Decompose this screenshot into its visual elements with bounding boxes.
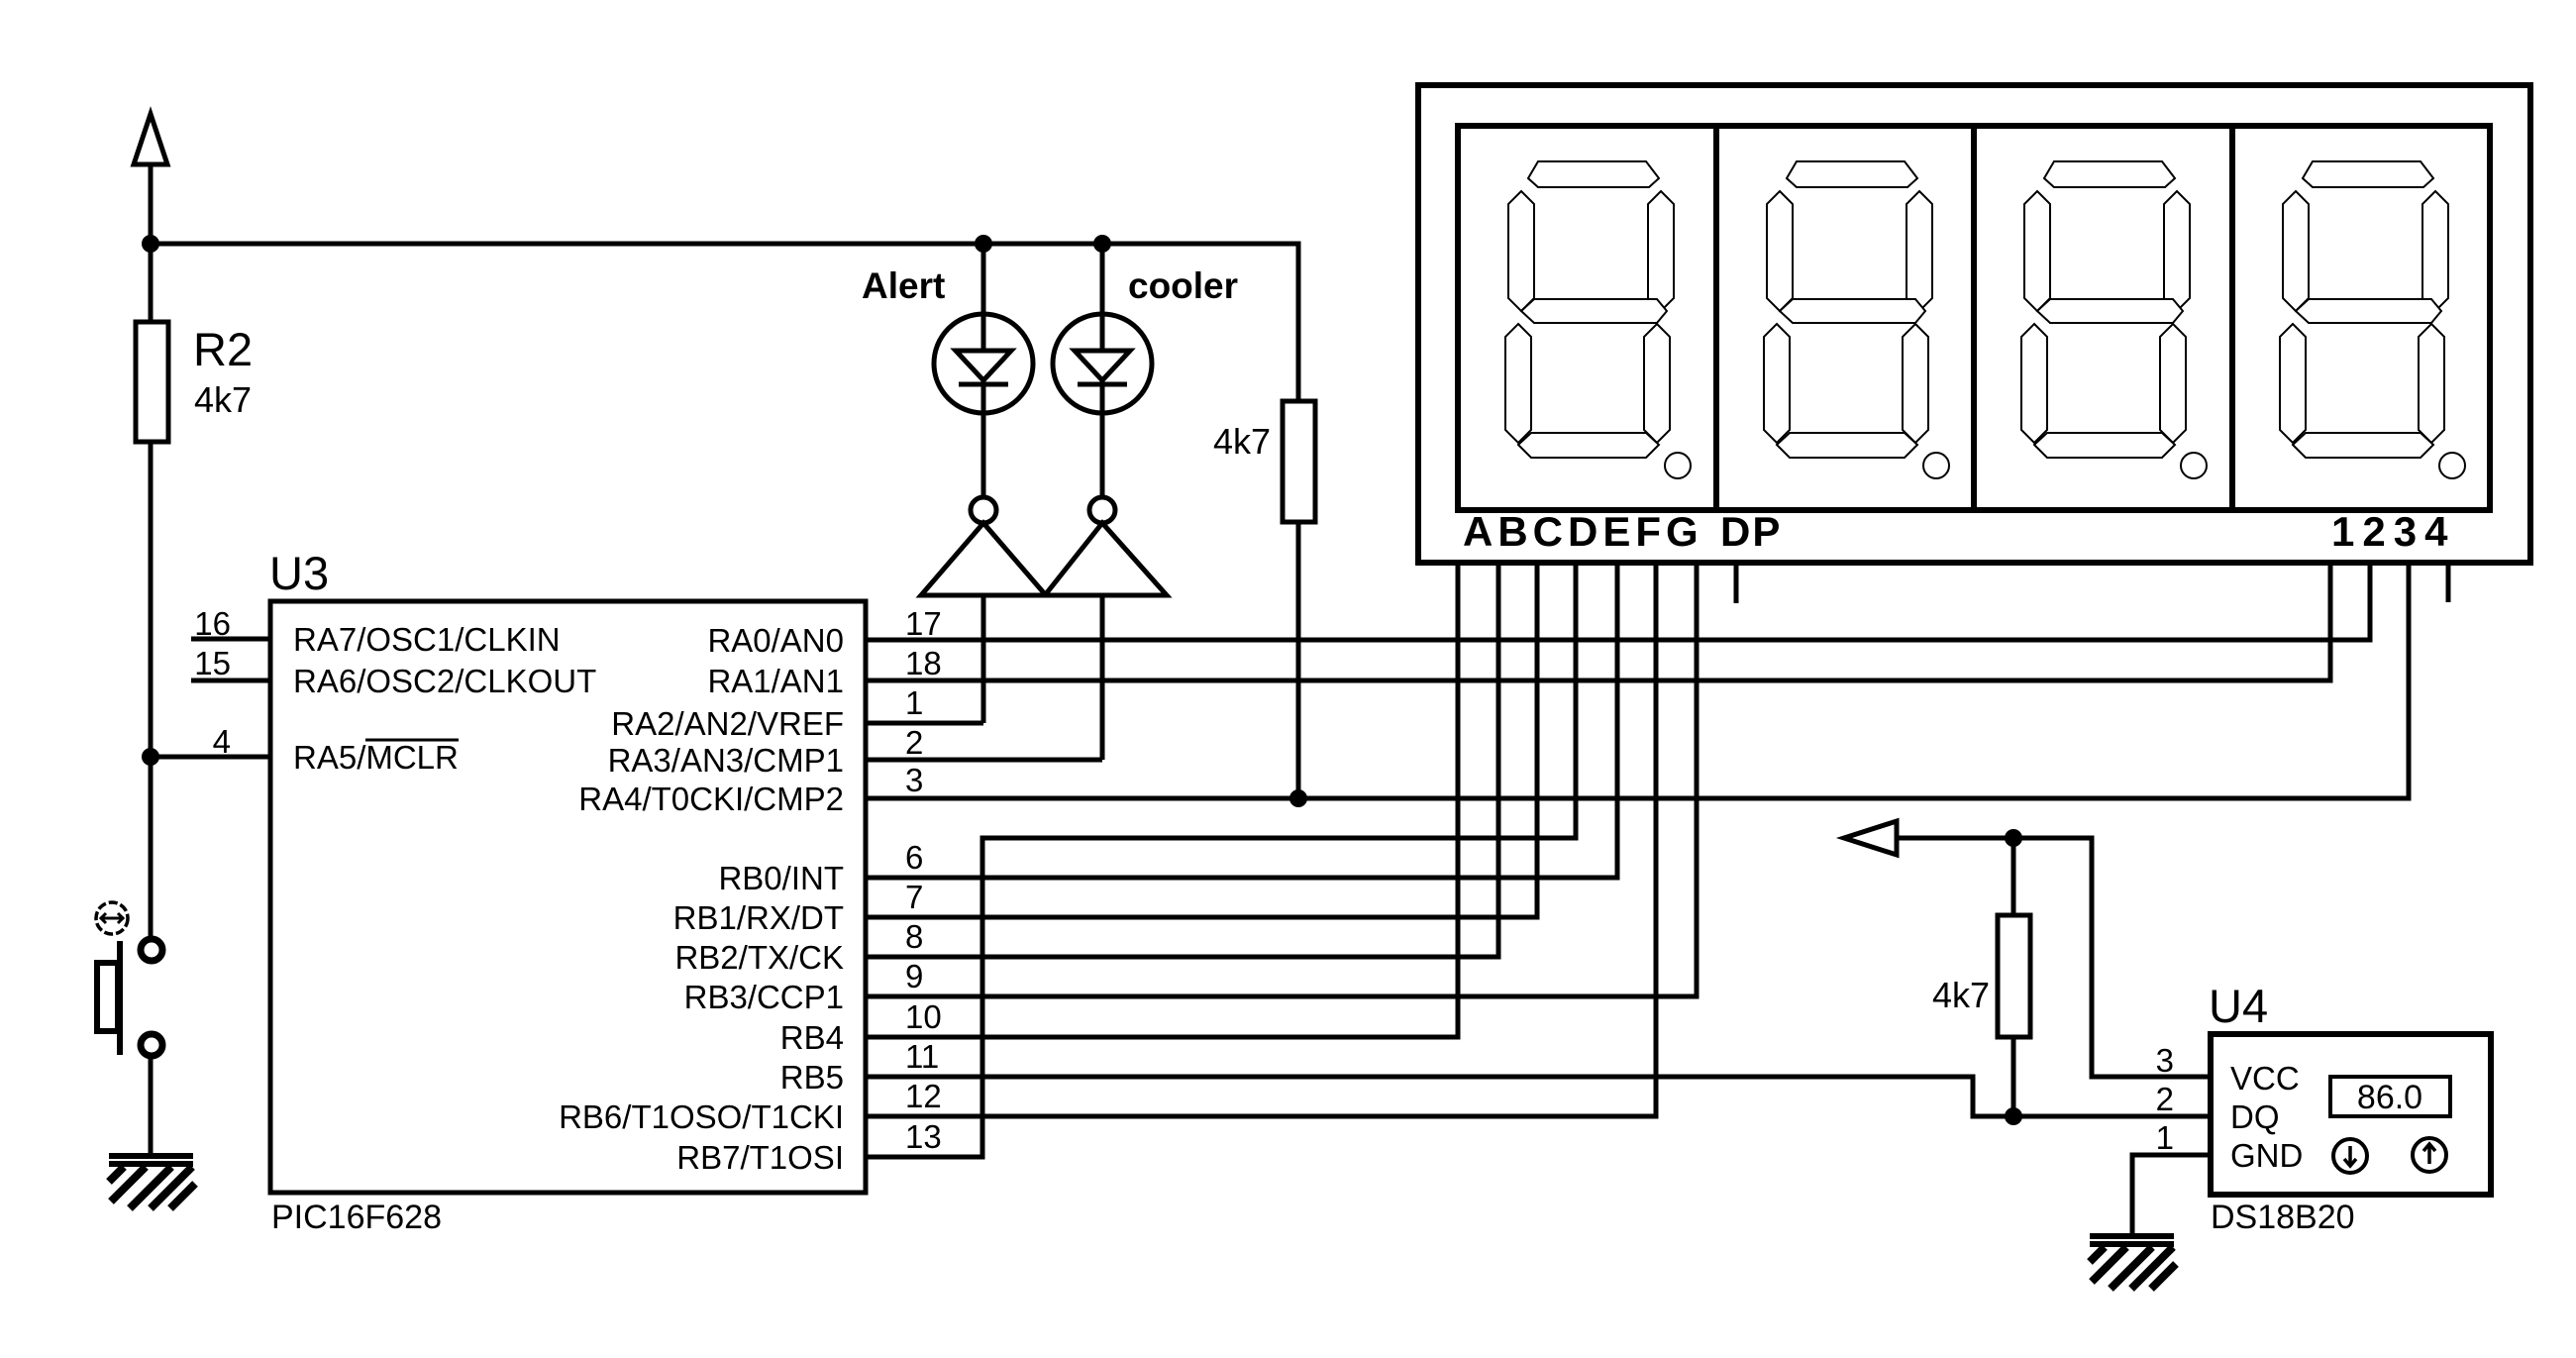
svg-text:1: 1 (905, 684, 923, 721)
svg-text:RA6/OSC2/CLKOUT: RA6/OSC2/CLKOUT (293, 663, 596, 699)
svg-text:2: 2 (905, 724, 923, 761)
power VCC arrow (DS18B20 supply) (1844, 821, 2211, 1077)
junction VCC with R4 (2005, 829, 2022, 847)
svg-text:RA7/OSC1/CLKIN: RA7/OSC1/CLKIN (293, 621, 561, 658)
svg-text:RA3/AN3/CMP1: RA3/AN3/CMP1 (608, 742, 844, 779)
7-segment display module DIS1 (1418, 85, 2530, 563)
svg-text:6: 6 (905, 839, 923, 876)
icon down arrow (2333, 1139, 2367, 1173)
svg-text:cooler: cooler (1128, 265, 1238, 306)
push button S1 (96, 902, 162, 1056)
junction RA5 node (142, 748, 159, 766)
svg-text:RB5: RB5 (780, 1059, 844, 1096)
wire RA1 pin 18 to digit 1 select (866, 560, 2330, 680)
7-segment digit 3 (2021, 161, 2207, 478)
wire display pin digit 4 stub (2446, 563, 2451, 602)
svg-text:3: 3 (905, 762, 923, 798)
wire RB3 pin 9 to segment G (866, 560, 1697, 996)
svg-text:RB0/INT: RB0/INT (718, 860, 844, 896)
wire GND pin 1 of U4 (2132, 1155, 2211, 1234)
icon up arrow (2413, 1138, 2446, 1172)
LED D1 Alert (862, 244, 1033, 497)
svg-text:RA0/AN0: RA0/AN0 (707, 622, 844, 659)
svg-text:RA2/AN2/VREF: RA2/AN2/VREF (611, 705, 844, 742)
junction DQ with R4 (2005, 1107, 2022, 1125)
svg-text:RB4: RB4 (780, 1019, 844, 1056)
wire pin 16 stub (191, 637, 270, 642)
svg-text:DS18B20: DS18B20 (2211, 1199, 2355, 1236)
svg-text:RA4/T0CKI/CMP2: RA4/T0CKI/CMP2 (578, 781, 844, 817)
wire pin 15 stub (191, 679, 270, 683)
junction VCC rail at cooler LED (1093, 235, 1111, 253)
svg-text:4k7: 4k7 (194, 379, 252, 420)
svg-text:7: 7 (905, 879, 923, 915)
svg-text:RB2/TX/CK: RB2/TX/CK (674, 939, 844, 976)
svg-text:RB7/T1OSI: RB7/T1OSI (676, 1139, 844, 1176)
resistor R4 4k7 (DQ pull-up) (1932, 838, 2030, 1116)
svg-text:U3: U3 (269, 547, 329, 599)
svg-text:4k7: 4k7 (1932, 975, 1990, 1015)
svg-text:RA5/MCLR: RA5/MCLR (293, 739, 459, 776)
svg-text:DP: DP (1720, 508, 1782, 555)
svg-text:ABCDEFG: ABCDEFG (1463, 508, 1703, 555)
wire RA2 pin 1 to Alert driver (866, 721, 983, 726)
wire RB1 pin 7 to segment C (866, 560, 1537, 917)
svg-text:4k7: 4k7 (1213, 421, 1271, 462)
svg-text:86.0: 86.0 (2357, 1079, 2422, 1116)
inverter buffer Q1 (Alert driver) (921, 497, 1046, 723)
svg-text:1: 1 (2156, 1119, 2174, 1156)
wire RB5 pin 11 to DS18B20 DQ (866, 1077, 2211, 1116)
wire VCC rail to LEDs and 4k7 (151, 244, 1298, 401)
svg-text:9: 9 (905, 958, 923, 994)
wire RA5 pin 4 (151, 755, 272, 760)
svg-text:RA1/AN1: RA1/AN1 (707, 663, 844, 699)
ground (DS18B20) (2090, 1233, 2176, 1289)
7-segment digit 4 (2280, 161, 2465, 478)
svg-text:Alert: Alert (862, 265, 945, 306)
IC U4 DS18B20 (2209, 980, 2491, 1236)
svg-text:15: 15 (194, 645, 231, 681)
wire RA4 pin 3 to digit 3 select (866, 560, 2409, 798)
LED D2 cooler (1053, 244, 1238, 497)
svg-text:16: 16 (194, 605, 231, 642)
junction VCC rail at Alert LED (975, 235, 992, 253)
svg-text:DQ: DQ (2230, 1098, 2280, 1135)
display readout 86.0 (2330, 1077, 2450, 1116)
svg-text:10: 10 (905, 998, 942, 1035)
svg-text:2: 2 (2156, 1081, 2174, 1117)
svg-text:RB1/RX/DT: RB1/RX/DT (673, 899, 844, 936)
7-segment digit 2 (1764, 161, 1949, 478)
wire RB2 pin 8 to segment B (866, 560, 1498, 957)
wire RB6 pin 12 to segment F (866, 560, 1656, 1116)
ground (left) (109, 1153, 195, 1208)
wire RB4 pin 10 to segment A (866, 560, 1458, 1037)
svg-text:RB3/CCP1: RB3/CCP1 (684, 979, 844, 1015)
svg-text:GND: GND (2230, 1137, 2303, 1174)
svg-text:VCC: VCC (2230, 1060, 2300, 1097)
power VCC arrow (top left) (134, 114, 167, 246)
wire button to ground (149, 1058, 154, 1154)
svg-text:13: 13 (905, 1118, 942, 1155)
svg-text:3: 3 (2156, 1042, 2174, 1079)
junction RA4 with R3 (1289, 789, 1307, 807)
svg-text:U4: U4 (2209, 980, 2268, 1032)
svg-text:PIC16F628: PIC16F628 (271, 1199, 442, 1236)
svg-text:12: 12 (905, 1078, 942, 1114)
inverter buffer Q2 (cooler driver) (1045, 497, 1167, 760)
wire RA0 pin 17 to digit 2 select (866, 560, 2370, 640)
svg-text:18: 18 (905, 645, 942, 681)
svg-text:11: 11 (905, 1038, 939, 1075)
resistor R3 4k7 (display digit 3 pull-up) (1213, 401, 1315, 798)
wire RA3 pin 2 to cooler driver (866, 758, 1102, 763)
wire RB7 pin 13 to segment D (866, 560, 1576, 1157)
7-segment digit 1 (1505, 161, 1691, 478)
junction VCC rail at R2 (142, 235, 159, 253)
svg-text:RB6/T1OSO/T1CKI: RB6/T1OSO/T1CKI (559, 1098, 844, 1135)
pin label RA5/MCLR with overline (293, 739, 459, 776)
svg-text:8: 8 (905, 918, 923, 955)
svg-text:1234: 1234 (2331, 508, 2455, 555)
svg-text:4: 4 (213, 723, 231, 760)
wire R2 to RA5 junction and push button (149, 442, 154, 939)
wire RB0 pin 6 to segment E (866, 560, 1617, 878)
resistor R2 (136, 244, 253, 442)
wire display pin DP stub (1734, 563, 1739, 603)
svg-text:R2: R2 (193, 323, 253, 375)
svg-text:17: 17 (905, 605, 942, 642)
IC U3 PIC16F628 (269, 547, 866, 1236)
